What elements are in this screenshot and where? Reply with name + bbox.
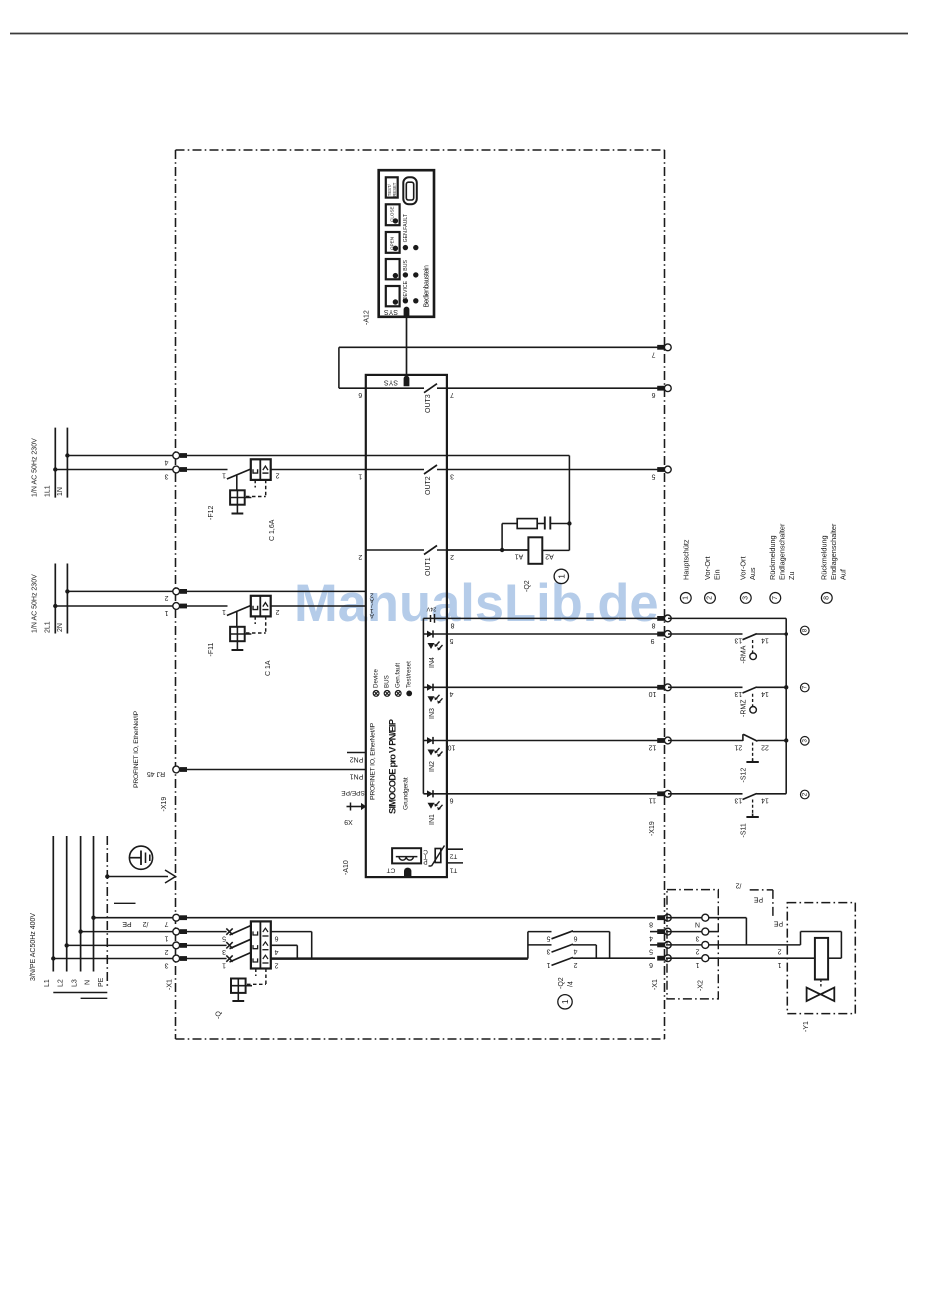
circuit breaker -F11 manual drive T-bar (236, 641, 238, 650)
svg-text:12: 12 (649, 743, 657, 750)
input IN1 symbol (423, 793, 447, 795)
junction node cap/feed (567, 521, 571, 525)
svg-text:5: 5 (222, 934, 226, 941)
wire L3 to X1-1 (81, 931, 173, 933)
svg-text:6: 6 (573, 934, 577, 941)
circuit breaker -F11 trip linkage (dashed) (254, 616, 256, 624)
svg-text:IN3: IN3 (429, 708, 436, 719)
svg-text:-X1: -X1 (652, 979, 659, 990)
port PN2 stub (347, 752, 366, 754)
valve symbol (820, 980, 822, 989)
svg-text:-S12: -S12 (741, 768, 748, 783)
svg-text:2: 2 (450, 553, 454, 560)
function circle 1 (contactor) (558, 995, 572, 1009)
svg-text:Vor-Ort: Vor-Ort (703, 556, 712, 580)
svg-text:4: 4 (274, 948, 278, 955)
svg-text:DEVICE: DEVICE (403, 280, 409, 300)
svg-text:SYS: SYS (384, 308, 398, 315)
svg-text:Test/reset: Test/reset (406, 661, 413, 688)
svg-text:OUT3: OUT3 (425, 394, 432, 413)
svg-text:1: 1 (164, 934, 168, 941)
svg-text:Endlagenschalter: Endlagenschalter (778, 523, 787, 580)
resistor R (RC suppressor) (501, 524, 503, 551)
svg-text:Aus: Aus (748, 567, 757, 580)
limit switch -RMZ (668, 686, 743, 688)
capacitor C (RC suppressor) (544, 517, 546, 530)
svg-text:9: 9 (650, 637, 654, 644)
svg-text:14: 14 (761, 797, 769, 804)
svg-text:2: 2 (573, 961, 577, 968)
svg-text:PE: PE (774, 920, 784, 927)
svg-text:RJ 45: RJ 45 (147, 770, 165, 777)
svg-text:24V: 24V (426, 606, 436, 612)
svg-text:N: N (85, 980, 92, 985)
svg-text:7: 7 (801, 685, 808, 689)
wire capacitor to junction (550, 523, 569, 525)
svg-text:6: 6 (449, 797, 453, 804)
breaker -Q pole 3 (226, 955, 232, 961)
svg-text:1: 1 (358, 472, 362, 479)
supply line N (93, 836, 95, 972)
svg-text:1: 1 (164, 609, 168, 616)
function circle 8 (RMA) (801, 626, 810, 635)
node 4 connector at left border (173, 452, 180, 459)
svg-text:21: 21 (734, 743, 742, 750)
svg-text:-Q: -Q (216, 1011, 223, 1019)
svg-text:10: 10 (448, 743, 456, 750)
svg-text:PROFINET IO, EtherNet/IP: PROFINET IO, EtherNet/IP (370, 722, 377, 800)
supply underline strokes (53, 992, 107, 994)
svg-text:A2: A2 (545, 552, 554, 559)
svg-text:RESET: RESET (392, 182, 397, 196)
svg-text:1: 1 (777, 961, 781, 968)
svg-text:PROFINET IO, EtherNet/IP: PROFINET IO, EtherNet/IP (133, 710, 140, 788)
button legend Test/reset (406, 691, 412, 697)
svg-text:5: 5 (651, 472, 655, 479)
operator panel box -A12 (379, 170, 434, 317)
svg-text:C 1A: C 1A (265, 660, 272, 676)
button OPEN (386, 232, 400, 253)
wire IN3 to border (447, 686, 665, 688)
svg-text:L3: L3 (71, 979, 78, 987)
svg-text:A: A (369, 612, 374, 619)
wire X1-3 to breaker (186, 958, 227, 960)
svg-text:1: 1 (695, 961, 699, 968)
LED legend Gen.fault (395, 691, 401, 697)
svg-text:8: 8 (823, 596, 830, 600)
svg-text:13: 13 (734, 797, 742, 804)
24V supply row (423, 617, 447, 619)
wire PROFINET to PN1 (187, 769, 366, 771)
svg-text:7: 7 (772, 596, 779, 600)
op-amp OUT3 contact (424, 384, 437, 393)
legend circle 1 Hauptschuetz (680, 593, 691, 604)
breaker -Q trip box (251, 921, 271, 968)
PE to enclosure arrow (105, 874, 109, 878)
breaker output transposition (271, 931, 312, 933)
A12 LED row 2 (403, 272, 408, 277)
svg-text:8: 8 (649, 921, 653, 928)
svg-text:3: 3 (164, 961, 168, 968)
contactor -Q2 input risers (527, 932, 529, 959)
LED legend Device (373, 691, 379, 697)
svg-text:5: 5 (649, 948, 653, 955)
svg-text:PE: PE (754, 896, 764, 903)
svg-text:SIMOCODE pro V PN/EIP: SIMOCODE pro V PN/EIP (387, 719, 398, 814)
breaker -Q pole 1 (226, 928, 232, 934)
top page rule (10, 33, 908, 35)
svg-text:8: 8 (651, 621, 655, 628)
legend circle 8 Rueckmeldung Auf (821, 593, 832, 604)
A12 button 4 (386, 286, 400, 306)
node 12 connector at right border (657, 738, 664, 743)
wire feed2-1 (to fuse F11) (55, 605, 172, 607)
svg-text:2: 2 (274, 961, 278, 968)
node 2 connector at left border (173, 588, 180, 595)
svg-text:14: 14 (761, 636, 769, 643)
svg-text:/2: /2 (735, 882, 741, 889)
contactor coil -Q2 A1-A2 (447, 549, 502, 551)
svg-text:-F12: -F12 (208, 506, 215, 521)
svg-text:10: 10 (649, 690, 657, 697)
svg-text:-RMZ: -RMZ (741, 699, 748, 717)
wire F11 output to A1 (271, 605, 366, 607)
X2 terminal 3 (666, 931, 702, 933)
svg-text:BUS: BUS (403, 259, 409, 270)
svg-text:Ein: Ein (713, 569, 722, 580)
legend circle 3 Vor-Ort Aus (740, 593, 751, 604)
function circle 3 (S12) (801, 737, 810, 746)
function circle 7 (RMZ) (801, 683, 810, 692)
svg-text:3: 3 (695, 934, 699, 941)
svg-text:6: 6 (358, 391, 362, 398)
svg-text:P: P (423, 858, 427, 865)
node 7 connector at right border (657, 345, 664, 350)
SIMOCODE basic unit box -A10 (366, 375, 447, 877)
contact OUT2 (424, 465, 437, 474)
wire L2 to X1-2 (67, 944, 173, 946)
wire resistor to capacitor (537, 523, 545, 525)
SPE/PE ground arrow (350, 803, 352, 811)
svg-text:6: 6 (274, 934, 278, 941)
svg-text:Gen.fault: Gen.fault (395, 663, 402, 688)
A12 LED row 1 (403, 245, 408, 250)
svg-text:4: 4 (449, 690, 453, 697)
svg-text:1: 1 (222, 961, 226, 968)
svg-text:/2: /2 (142, 920, 148, 927)
feed 1 line stub 1N (66, 428, 68, 498)
svg-text:1: 1 (546, 961, 550, 968)
svg-text:1: 1 (560, 999, 570, 1004)
LED legend BUS (384, 691, 390, 697)
contactor -Q2 pole 5-6 (552, 931, 574, 939)
legend circle 2 Vor-Ort Ein (705, 593, 716, 604)
A12 SYS pin (404, 307, 410, 318)
svg-text:T1: T1 (449, 866, 457, 873)
svg-text:BUS: BUS (384, 675, 391, 688)
svg-text:-X19: -X19 (161, 797, 168, 812)
breaker -Q T-bar (237, 993, 239, 1001)
wire PE through enclosure (186, 917, 655, 919)
node X1-5 connector (650, 944, 658, 946)
svg-text:3: 3 (164, 472, 168, 479)
stray PE underline (114, 902, 136, 904)
svg-text:6: 6 (651, 391, 655, 398)
breaker -Q pole 2 (226, 942, 232, 948)
node X1-8 connector (PE) (657, 915, 664, 920)
svg-text:IN4: IN4 (429, 657, 436, 668)
svg-text:1: 1 (222, 608, 226, 615)
svg-text:Grundgerät: Grundgerät (403, 777, 410, 810)
svg-text:-Y1: -Y1 (803, 1021, 810, 1032)
svg-text:7: 7 (450, 391, 454, 398)
svg-text:-F11: -F11 (208, 643, 215, 657)
svg-text:L2: L2 (58, 979, 65, 987)
function circle 1 (coil) (554, 569, 568, 583)
supply line L1 (52, 836, 54, 972)
svg-text:PN1: PN1 (350, 772, 364, 779)
svg-text:Zu: Zu (787, 571, 796, 580)
wire X1-1 to breaker (186, 931, 227, 933)
feed 2 line stub 2N (66, 564, 68, 634)
circuit breaker -F12 trip unit box (251, 459, 271, 480)
wire terminal 8 to border (447, 617, 665, 619)
svg-text:14: 14 (761, 690, 769, 697)
svg-text:2N: 2N (57, 623, 64, 632)
supply line L3 (80, 836, 82, 972)
solenoid coil Y1 (815, 938, 828, 980)
svg-text:7: 7 (164, 920, 168, 927)
circuit breaker -F11 contact blade (227, 606, 251, 616)
svg-text:13: 13 (734, 636, 742, 643)
svg-text:CT: CT (387, 867, 396, 874)
wire feed2-2 (to A2) (67, 590, 172, 592)
svg-text:1/N AC 50Hz 230V: 1/N AC 50Hz 230V (32, 438, 39, 497)
wire X2-3 stub (709, 931, 719, 933)
svg-text:C 1,6A: C 1,6A (269, 519, 276, 541)
node 6 connector at right border (657, 386, 664, 391)
svg-text:T2: T2 (449, 852, 457, 859)
ground symbol (129, 846, 152, 869)
legend circle 7 Rueckmeldung Zu (770, 593, 781, 604)
wire X2-1 to valve coil (709, 957, 815, 959)
svg-text:Rückmeldung: Rückmeldung (820, 535, 829, 580)
input IN2 symbol (423, 740, 447, 742)
wire X1-2 to breaker (186, 944, 227, 946)
svg-text:Rückmeldung: Rückmeldung (768, 535, 777, 580)
svg-text:-X2: -X2 (698, 980, 705, 991)
circuit breaker -F12 operator mechanism (236, 476, 238, 491)
supply line L2 (66, 836, 68, 972)
circuit breaker -F12 trip linkage (dashed) (254, 480, 256, 488)
enclosure boundary dash-dot border (176, 149, 665, 151)
svg-text:-S11: -S11 (741, 823, 748, 837)
svg-text:3: 3 (450, 472, 454, 479)
svg-text:2: 2 (801, 792, 808, 796)
button CLOSE (386, 204, 400, 225)
node 8 connector at right border (657, 616, 664, 621)
svg-text:2L1: 2L1 (45, 621, 52, 633)
svg-text:6: 6 (649, 961, 653, 968)
input IN3 symbol (423, 686, 447, 688)
feed 2 line stub 2L1 (54, 564, 56, 634)
X2 terminal 1 (666, 957, 702, 959)
rocker switch symbol (403, 177, 417, 204)
svg-text:PE: PE (122, 920, 132, 927)
wire L1 to X1-3 (53, 958, 172, 960)
circuit breaker -F11 operator mechanism (236, 612, 238, 627)
svg-text:-X1: -X1 (167, 979, 174, 990)
svg-text:OUT2: OUT2 (425, 476, 432, 495)
contactor -Q2 output transposition (609, 932, 611, 959)
node 9 connector at right border (657, 632, 664, 637)
svg-text:2: 2 (695, 948, 699, 955)
svg-text:8: 8 (801, 628, 808, 632)
node X1-4 connector (650, 931, 658, 933)
svg-text:4: 4 (573, 948, 577, 955)
svg-text:1N: 1N (57, 487, 64, 496)
supply line PE (dash-dot) (106, 836, 108, 988)
svg-text:2: 2 (275, 472, 279, 479)
node RJ45 connector at left border (173, 766, 180, 773)
svg-text:5: 5 (449, 637, 453, 644)
terminal T1 stub (447, 862, 463, 864)
svg-text:Hauptschütz: Hauptschütz (682, 539, 691, 580)
wire feed1-4 (to coil circuit) (67, 455, 172, 457)
svg-text:11: 11 (649, 797, 656, 804)
svg-text:IN1: IN1 (429, 814, 436, 825)
svg-text:7: 7 (651, 350, 655, 357)
node 1 connector at left border (173, 603, 180, 610)
wire X2-2 to junction (709, 944, 747, 946)
wire PE to X1-7 (94, 917, 173, 919)
svg-text:ManualsLib.de: ManualsLib.de (294, 574, 659, 633)
wire three-phase run to contactor (271, 957, 528, 959)
A12 LED row 3 (403, 298, 408, 303)
breaker -Q trip linkage dashed (255, 969, 257, 977)
wire A12 SYS to device SYS (406, 317, 408, 375)
node X1-6 connector (657, 956, 664, 961)
wire IN1 to border (447, 793, 665, 795)
A12 button 3 (386, 259, 400, 279)
svg-text:Endlagenschalter: Endlagenschalter (829, 523, 838, 580)
contactor -Q2 pole 1-2 (552, 957, 574, 965)
X2 terminal N (666, 917, 702, 919)
svg-text:Device: Device (373, 669, 380, 688)
svg-text:1L1: 1L1 (45, 485, 52, 497)
svg-text:2: 2 (164, 594, 168, 601)
svg-text:2: 2 (358, 553, 362, 560)
svg-text:3: 3 (222, 948, 226, 955)
svg-text:2: 2 (164, 948, 168, 955)
feed 1 line stub 1L1 (54, 428, 56, 498)
wire feed1-3 (to fuse F12) (55, 469, 172, 471)
node 3 connector at left border (173, 466, 180, 473)
SYS pin at top of device box (404, 376, 410, 387)
svg-text:SPE/PE: SPE/PE (341, 789, 365, 796)
breaker -Q operator mechanism (231, 979, 246, 993)
wire F12 output to OUT2 terminal 1 (271, 469, 424, 471)
svg-text:PE: PE (98, 977, 105, 987)
svg-text:Auf: Auf (839, 568, 848, 580)
svg-text:/4: /4 (568, 981, 575, 987)
svg-text:3: 3 (546, 948, 550, 955)
svg-text:A1: A1 (515, 552, 524, 559)
right vertical bus wire (668, 617, 786, 619)
svg-text:4: 4 (164, 458, 168, 465)
svg-text:2: 2 (275, 608, 279, 615)
svg-text:-X19: -X19 (649, 821, 656, 836)
valve box -Y1 (dash-dot) (787, 903, 855, 1014)
svg-text:N: N (695, 921, 700, 928)
input IN4 symbol (423, 633, 447, 635)
svg-text:Bedienbaustein: Bedienbaustein (424, 265, 431, 308)
svg-text:-Q2: -Q2 (524, 580, 531, 592)
input common rail (422, 618, 424, 793)
wire IN2 to border (447, 740, 665, 742)
node 11 connector at right border (657, 791, 664, 796)
svg-text:-Q2: -Q2 (558, 977, 565, 989)
button TEST/RESET (386, 177, 398, 197)
pushbutton -S12 (NC) (668, 740, 743, 742)
svg-text:3/N/PE AC50Hz 400V: 3/N/PE AC50Hz 400V (30, 913, 37, 981)
svg-text:GEN.FAULT: GEN.FAULT (403, 213, 409, 242)
CT pin (filled) (404, 868, 411, 877)
svg-text:4: 4 (649, 934, 653, 941)
junction node OUT1/RC (500, 548, 504, 552)
svg-text:13: 13 (734, 690, 742, 697)
svg-text:L1: L1 (44, 979, 51, 987)
X2 terminal 2 (666, 944, 702, 946)
pushbutton -S11 (NO) (668, 793, 743, 795)
contactor -Q2 pole 3-4 (552, 944, 574, 952)
wire OUT3-6 loop to border node 7 (339, 346, 665, 348)
svg-text:1: 1 (682, 596, 689, 600)
limit switch -RMA (668, 633, 743, 635)
current transformer CT symbol (392, 848, 421, 863)
svg-text:3: 3 (801, 739, 808, 743)
svg-text:1: 1 (222, 472, 226, 479)
svg-text:Vor-Ort: Vor-Ort (739, 556, 748, 580)
wire junction to coil right (over coil) (746, 944, 800, 946)
svg-text:-RMA: -RMA (741, 645, 748, 663)
svg-text:1/N AC 50Hz 230V: 1/N AC 50Hz 230V (32, 574, 39, 633)
thermistor PTC symbol (435, 849, 441, 863)
svg-text:8: 8 (450, 621, 454, 628)
svg-text:X9: X9 (344, 818, 353, 825)
svg-text:2: 2 (777, 947, 781, 954)
wire X2-N to valve circuit (709, 917, 747, 919)
node 5 connector at right border (657, 467, 664, 472)
function circle 2 (S11) (801, 790, 810, 799)
circuit breaker -F12 contact blade (227, 469, 251, 479)
PE dash-dot stub (750, 889, 773, 891)
svg-text:22: 22 (761, 743, 769, 750)
terminal strip -X2 box (dash-dot) (667, 890, 718, 999)
wire IN4 to border (447, 633, 665, 635)
svg-text:1: 1 (556, 574, 566, 579)
svg-text:-A10: -A10 (343, 860, 350, 875)
svg-text:IN2: IN2 (429, 761, 436, 772)
svg-text:5: 5 (546, 934, 550, 941)
contact OUT1 (366, 549, 424, 551)
svg-text:-A12: -A12 (364, 310, 371, 325)
svg-text:SYS: SYS (384, 378, 398, 385)
wire feed1-4 segment to coil branch (186, 455, 569, 457)
circuit breaker -F11 trip unit box (251, 596, 271, 617)
svg-text:2: 2 (707, 596, 714, 600)
svg-text:PN2: PN2 (350, 755, 364, 762)
